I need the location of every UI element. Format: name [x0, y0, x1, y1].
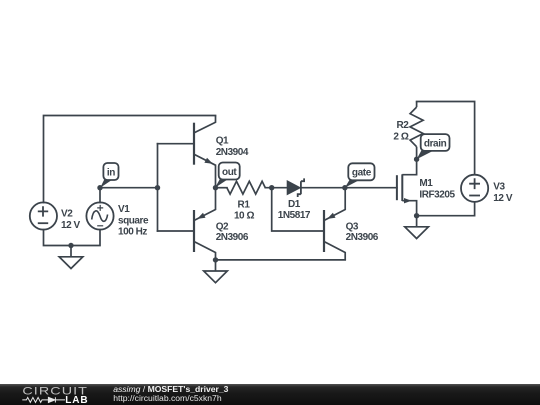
- node source dot: [414, 213, 419, 218]
- wire V2/V1 bottom: [44, 230, 101, 246]
- svg-text:drain: drain: [424, 138, 447, 149]
- node out flag: [215, 163, 240, 188]
- mosfet M1: [397, 159, 417, 216]
- label Q2: [216, 222, 249, 244]
- resistor R1: [227, 181, 265, 194]
- svg-text:out: out: [222, 167, 237, 178]
- svg-text:V1: V1: [118, 204, 130, 215]
- svg-text:R2: R2: [397, 120, 410, 131]
- transistor Q1: [194, 116, 216, 188]
- svg-text:square: square: [118, 215, 149, 226]
- svg-text:2N3906: 2N3906: [216, 232, 249, 243]
- node ground-mid dot: [213, 257, 218, 262]
- svg-text:IRF3205: IRF3205: [419, 189, 455, 200]
- node out dot: [213, 185, 218, 190]
- M1 source arrow: [404, 198, 412, 203]
- node D1 junction dot: [269, 185, 274, 190]
- label V1: [118, 204, 149, 238]
- label R2: [393, 120, 409, 142]
- wire in node to base junction: [100, 187, 158, 189]
- Q3 emitter arrow: [327, 213, 335, 219]
- label Q1: [216, 136, 249, 158]
- voltage source V3: [461, 175, 488, 202]
- node in dot: [97, 185, 102, 190]
- label V3: [493, 181, 513, 203]
- wire D1 to M1 gate through gate node: [301, 187, 397, 189]
- node in flag: [100, 163, 118, 188]
- label V2: [61, 208, 81, 230]
- label Q3: [346, 222, 379, 244]
- wire R1 to D1: [265, 187, 287, 189]
- svg-text:in: in: [107, 167, 115, 178]
- wire V1 top to in node: [99, 188, 101, 203]
- wire out node to R1: [216, 187, 227, 189]
- footer bar: [0, 384, 540, 405]
- label M1: [419, 178, 455, 200]
- svg-text:D1: D1: [288, 199, 301, 210]
- ground left: [59, 246, 83, 269]
- svg-text:12 V: 12 V: [493, 193, 513, 204]
- ground right: [405, 216, 429, 239]
- svg-text:Q2: Q2: [216, 222, 229, 233]
- diode D1: [287, 178, 304, 197]
- svg-text:R1: R1: [238, 200, 251, 211]
- svg-text:100 Hz: 100 Hz: [118, 227, 147, 238]
- svg-text:12 V: 12 V: [61, 220, 81, 231]
- wire top-left rail: [44, 116, 216, 203]
- resistor R2: [410, 102, 423, 160]
- node ground-left dot: [68, 243, 73, 248]
- transistor Q2: [194, 188, 216, 260]
- svg-text:http://circuitlab.com/c5xkn7h: http://circuitlab.com/c5xkn7h: [113, 393, 222, 403]
- node gate flag: [345, 163, 375, 187]
- label R1: [234, 200, 255, 222]
- svg-text:Q3: Q3: [346, 222, 359, 233]
- svg-text:gate: gate: [352, 168, 372, 179]
- wire Q1 base lead: [158, 143, 194, 145]
- svg-text:2N3904: 2N3904: [216, 147, 249, 158]
- svg-text:LAB: LAB: [65, 395, 88, 405]
- svg-text:10 Ω: 10 Ω: [234, 211, 255, 222]
- svg-text:V2: V2: [61, 208, 73, 219]
- voltage source V1: [86, 202, 113, 229]
- svg-text:V3: V3: [493, 181, 505, 192]
- junction dots: [68, 157, 419, 263]
- wire bottom mid rail: [216, 259, 346, 261]
- wire D1 junction to Q3 base: [272, 188, 324, 231]
- transistor Q3: [324, 188, 345, 260]
- logo resistor-diode symbol: [22, 397, 65, 402]
- svg-text:Q1: Q1: [216, 136, 229, 147]
- wire top-right rail: [417, 102, 475, 175]
- wire base junction vertical: [157, 144, 159, 231]
- wire V3 bottom rail: [417, 202, 475, 216]
- Q1 emitter arrow: [204, 158, 212, 164]
- wire Q2 base lead: [158, 230, 194, 232]
- Q2 emitter arrow: [197, 213, 205, 219]
- node drain flag: [417, 134, 450, 159]
- svg-text:2 Ω: 2 Ω: [393, 132, 408, 143]
- node gate dot: [342, 185, 347, 190]
- node base junction dot: [155, 185, 160, 190]
- label D1: [278, 199, 311, 221]
- svg-text:M1: M1: [419, 178, 433, 189]
- voltage source V2: [30, 202, 57, 229]
- svg-text:2N3906: 2N3906: [346, 232, 379, 243]
- svg-text:1N5817: 1N5817: [278, 210, 311, 221]
- node drain dot: [414, 157, 419, 162]
- ground middle: [204, 260, 228, 283]
